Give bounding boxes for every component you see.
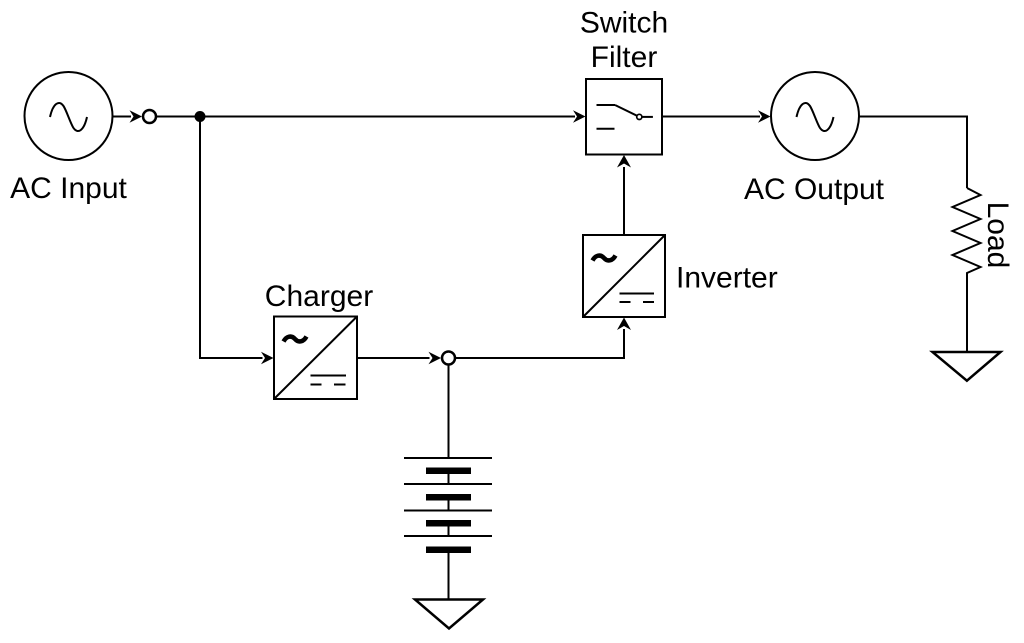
- wire: AC Output to Load resistor: [859, 117, 967, 189]
- wire: Charger to battery node (with arrowhead): [357, 352, 441, 365]
- svg-text:AC Input: AC Input: [10, 172, 127, 205]
- junction node (dot): [195, 111, 206, 122]
- ground (right): [933, 352, 1001, 381]
- svg-text:AC Output: AC Output: [744, 173, 885, 206]
- wire: junction down and right to Charger (with arrowhead): [200, 117, 274, 365]
- AC source V2 (AC Output): [771, 72, 859, 160]
- wire: terminal to junction: [157, 116, 201, 118]
- svg-text:Filter: Filter: [591, 41, 658, 74]
- wire: Inverter to Switch Filter (with arrowhead up): [617, 155, 631, 235]
- wire: node down to battery: [448, 365, 450, 459]
- wire: Load to ground: [966, 279, 968, 352]
- converter U1 Charger (AC/DC): [274, 317, 357, 400]
- AC source V1 (AC Input): [25, 72, 113, 160]
- svg-text:Charger: Charger: [265, 280, 373, 313]
- wire: Switch Filter to AC Output (with arrowhead): [662, 110, 771, 123]
- converter U2 Inverter (DC/AC): [583, 235, 665, 317]
- resistor R1 (Load): [953, 188, 981, 279]
- label Switch Filter: [580, 7, 668, 75]
- svg-text:Inverter: Inverter: [676, 262, 778, 295]
- battery B1: [404, 458, 492, 553]
- svg-text:Switch: Switch: [580, 7, 668, 40]
- wire: battery to ground: [448, 553, 450, 600]
- wire: AC Input to input terminal (with arrowhead): [113, 110, 143, 123]
- wire: junction to Switch Filter (with arrowhead): [200, 110, 586, 123]
- ground (bottom): [415, 600, 483, 629]
- Switch Filter block (switch symbol): [586, 79, 662, 155]
- input terminal (open circle): [143, 110, 156, 123]
- svg-text:Load: Load: [981, 202, 1014, 269]
- battery node (open circle): [442, 352, 455, 365]
- wire: node to Inverter (with arrowhead up): [456, 318, 632, 359]
